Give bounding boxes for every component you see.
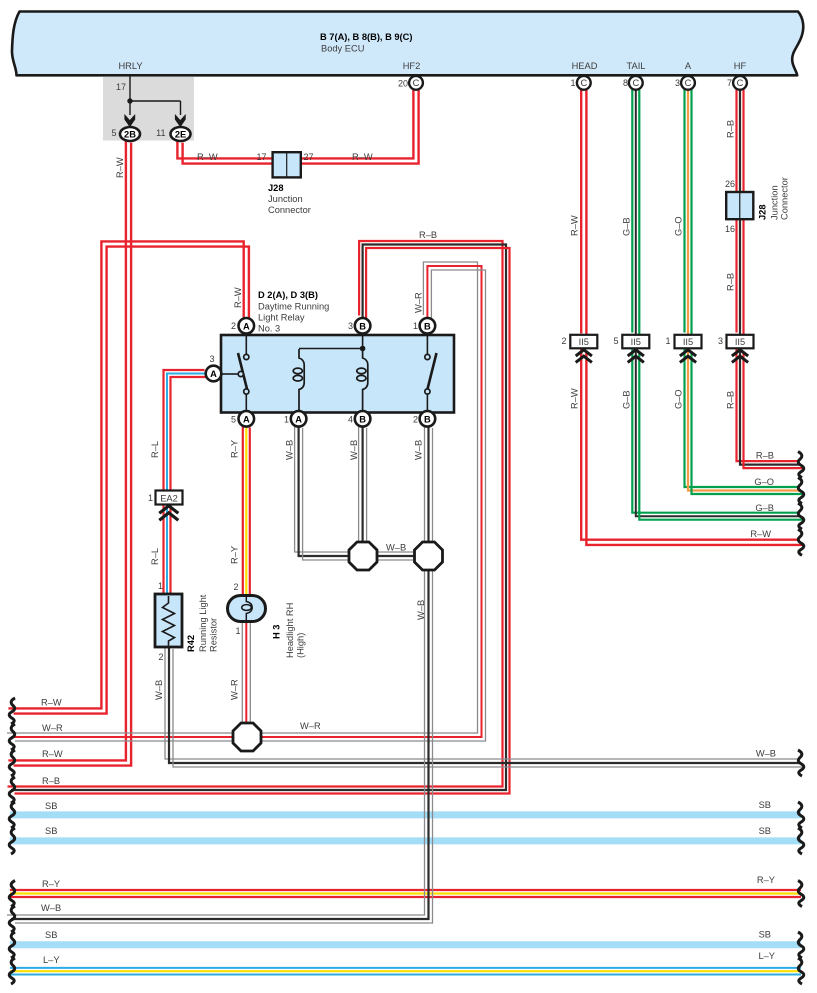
svg-text:3: 3 bbox=[209, 354, 214, 364]
svg-text:3: 3 bbox=[348, 321, 353, 331]
wire W-B R42 down and right to edge bbox=[165, 641, 797, 759]
splice octagon 2 bbox=[415, 542, 443, 570]
wire SB band 3 bbox=[10, 941, 801, 948]
svg-text:W–B: W–B bbox=[41, 903, 61, 913]
svg-text:R–B: R–B bbox=[726, 273, 736, 291]
Body ECU band B7(A) B8(B) B9(C) bbox=[12, 12, 803, 76]
svg-text:7: 7 bbox=[727, 78, 732, 88]
wire R-Y bottom full width bbox=[10, 889, 801, 891]
junction dot HRLY bbox=[127, 98, 132, 103]
svg-text:R–Y: R–Y bbox=[757, 875, 775, 885]
wire SB band 2 bbox=[10, 837, 801, 844]
svg-text:G–O: G–O bbox=[754, 477, 774, 487]
svg-text:B: B bbox=[359, 322, 366, 332]
svg-text:R–Y: R–Y bbox=[42, 879, 60, 889]
svg-text:R–B: R–B bbox=[726, 391, 736, 409]
svg-text:R–W: R–W bbox=[41, 698, 62, 708]
svg-text:8: 8 bbox=[623, 78, 628, 88]
connector oval 2E bbox=[171, 127, 191, 141]
svg-text:20: 20 bbox=[398, 79, 408, 89]
svg-text:SB: SB bbox=[759, 826, 771, 836]
chevron under II5 A bbox=[680, 350, 696, 363]
svg-text:Resistor: Resistor bbox=[209, 618, 219, 652]
svg-text:D 2(A), D 3(B): D 2(A), D 3(B) bbox=[258, 290, 318, 300]
svg-text:C: C bbox=[685, 78, 692, 88]
svg-text:4: 4 bbox=[348, 415, 353, 425]
svg-text:2: 2 bbox=[233, 582, 238, 592]
connector EA2 bbox=[156, 491, 183, 505]
wire R-W from connector 2B down to left edge bbox=[8, 137, 126, 760]
svg-text:R–W: R–W bbox=[570, 388, 580, 409]
connector II5 box (HEAD) bbox=[570, 335, 597, 349]
svg-text:Junction: Junction bbox=[268, 194, 303, 204]
svg-text:W–R: W–R bbox=[230, 679, 240, 700]
svg-text:Junction: Junction bbox=[770, 185, 780, 220]
svg-text:L–Y: L–Y bbox=[43, 955, 60, 965]
svg-text:TAIL: TAIL bbox=[627, 61, 646, 71]
svg-text:SB: SB bbox=[45, 930, 57, 940]
svg-text:R–B: R–B bbox=[419, 230, 437, 240]
svg-text:G–B: G–B bbox=[622, 217, 632, 236]
wire R-B HF column lower to right edge bbox=[737, 347, 798, 462]
wire R-Y relay pin 5A to H3 bbox=[242, 421, 244, 595]
relay left switch bbox=[222, 335, 249, 412]
svg-text:5: 5 bbox=[231, 415, 236, 425]
svg-text:SB: SB bbox=[759, 930, 771, 940]
ECU connector circle C (HEAD) bbox=[577, 76, 591, 90]
svg-text:J28: J28 bbox=[758, 204, 768, 220]
svg-text:1: 1 bbox=[235, 626, 240, 636]
svg-text:G–B: G–B bbox=[755, 503, 774, 513]
chevron under II5 HEAD bbox=[576, 350, 592, 363]
headlight H3 bulb bbox=[228, 596, 266, 622]
svg-text:R–L: R–L bbox=[150, 441, 160, 458]
svg-text:G–B: G–B bbox=[622, 390, 632, 409]
svg-text:R–B: R–B bbox=[42, 776, 60, 786]
wire R-W from connector 2E through J28 to HF2 bbox=[177, 83, 413, 158]
connector II5 box (HF) bbox=[727, 335, 754, 349]
svg-text:II5: II5 bbox=[683, 337, 693, 347]
resistor R42 box bbox=[155, 594, 182, 647]
wire R-B HF column upper through J28 bbox=[735, 83, 737, 333]
svg-text:R–W: R–W bbox=[570, 215, 580, 236]
wire W-B splice 1 to splice 2 bbox=[369, 551, 415, 553]
svg-text:11: 11 bbox=[156, 128, 165, 138]
wire R-L relay pin 3A to EA2 bbox=[164, 370, 205, 492]
svg-text:EA2: EA2 bbox=[160, 494, 178, 504]
chevron under EA2 bbox=[159, 506, 178, 521]
relay pin 5A circle bbox=[239, 411, 255, 427]
svg-text:R–B: R–B bbox=[726, 120, 736, 138]
svg-text:HF: HF bbox=[734, 61, 747, 71]
ECU connector circle C (TAIL) bbox=[629, 76, 643, 90]
wire SB band 1 bbox=[10, 811, 801, 818]
svg-text:W–R: W–R bbox=[42, 723, 63, 733]
wire R-W left loop to relay pin 2A bbox=[8, 241, 243, 708]
svg-text:R–W: R–W bbox=[750, 529, 771, 539]
svg-text:R–W: R–W bbox=[352, 152, 373, 162]
svg-text:17: 17 bbox=[116, 82, 126, 92]
relay pin 3A circle (left) bbox=[206, 366, 222, 382]
svg-text:5: 5 bbox=[613, 336, 618, 346]
relay pin 2B circle bbox=[420, 411, 436, 427]
ECU connector circle C (HF) bbox=[733, 76, 747, 90]
svg-text:II5: II5 bbox=[631, 337, 641, 347]
svg-text:Running Light: Running Light bbox=[198, 594, 208, 652]
svg-text:W–B: W–B bbox=[386, 543, 406, 553]
resistor zigzag bbox=[163, 596, 175, 646]
wire R-B relay pin 3B loop to left edge bbox=[8, 241, 503, 787]
svg-text:3: 3 bbox=[675, 78, 680, 88]
svg-text:3: 3 bbox=[718, 336, 723, 346]
svg-text:2B: 2B bbox=[124, 129, 136, 139]
svg-text:HF2: HF2 bbox=[403, 61, 421, 71]
svg-text:27: 27 bbox=[304, 152, 314, 162]
svg-text:A: A bbox=[243, 322, 250, 332]
svg-text:W–R: W–R bbox=[414, 292, 424, 313]
wire R-L EA2 to resistor R42 bbox=[162, 499, 164, 595]
junction connector J28 (right) bbox=[726, 192, 753, 219]
svg-text:C: C bbox=[737, 78, 744, 88]
svg-text:R–W: R–W bbox=[233, 287, 243, 308]
arrowhead into 2E bbox=[175, 114, 186, 127]
relay pin 1B circle bbox=[420, 318, 436, 334]
svg-text:1: 1 bbox=[665, 336, 670, 346]
svg-text:Connector: Connector bbox=[780, 177, 790, 220]
wire R-W HEAD column lower to right edge bbox=[581, 347, 798, 539]
svg-text:C: C bbox=[580, 78, 587, 88]
wire W-R relay pin 1B loop to left edge bbox=[7, 262, 478, 733]
svg-text:HRLY: HRLY bbox=[118, 61, 142, 71]
relay pin 3B circle bbox=[355, 318, 371, 334]
svg-text:Connector: Connector bbox=[268, 205, 311, 215]
wire L-Y bottom full width bbox=[10, 967, 801, 969]
splice octagon 3 bbox=[233, 723, 261, 751]
splice octagon 1 bbox=[349, 542, 377, 570]
svg-text:1: 1 bbox=[158, 581, 163, 591]
svg-text:SB: SB bbox=[45, 826, 57, 836]
svg-text:W–B: W–B bbox=[285, 440, 295, 460]
svg-text:1: 1 bbox=[570, 78, 575, 88]
chevron under II5 TAIL bbox=[628, 350, 644, 363]
svg-text:2: 2 bbox=[158, 652, 163, 662]
gray shade box under HRLY bbox=[103, 77, 194, 141]
svg-text:26: 26 bbox=[725, 179, 735, 189]
connector oval 2B bbox=[120, 127, 140, 141]
svg-text:2: 2 bbox=[231, 321, 236, 331]
svg-text:W–R: W–R bbox=[300, 721, 321, 731]
wire W-R headlight H3 to splice bbox=[241, 615, 243, 722]
relay coil 2 bbox=[357, 349, 368, 413]
svg-text:II5: II5 bbox=[579, 337, 589, 347]
connector II5 box (A) bbox=[675, 335, 702, 349]
svg-text:2: 2 bbox=[413, 415, 418, 425]
svg-text:R–W: R–W bbox=[115, 157, 125, 178]
svg-text:16: 16 bbox=[725, 224, 735, 234]
wire G-O A column upper bbox=[683, 83, 685, 333]
junction connector J28 (top middle) bbox=[273, 152, 301, 177]
svg-text:W–B: W–B bbox=[414, 440, 424, 460]
wire G-B TAIL column upper bbox=[631, 83, 633, 333]
svg-text:C: C bbox=[632, 78, 639, 88]
svg-text:C: C bbox=[413, 78, 420, 88]
relay coil 1 bbox=[293, 349, 304, 412]
svg-text:B: B bbox=[424, 322, 431, 332]
svg-text:W–B: W–B bbox=[416, 600, 426, 620]
svg-text:R–L: R–L bbox=[150, 548, 160, 565]
relay pin 1A circle bbox=[291, 411, 307, 427]
svg-text:A: A bbox=[685, 61, 692, 71]
svg-text:L–Y: L–Y bbox=[758, 951, 775, 961]
svg-text:Body ECU: Body ECU bbox=[321, 44, 364, 54]
svg-text:W–B: W–B bbox=[349, 440, 359, 460]
svg-text:Headlight RH: Headlight RH bbox=[285, 603, 295, 658]
connector II5 box (TAIL) bbox=[622, 335, 649, 349]
svg-text:II5: II5 bbox=[735, 337, 745, 347]
arrowhead into 2B bbox=[124, 114, 135, 127]
svg-text:A: A bbox=[243, 415, 250, 425]
wire W-B relay pin 4B to splice 1 bbox=[358, 420, 360, 544]
svg-text:B 7(A), B 8(B), B 9(C): B 7(A), B 8(B), B 9(C) bbox=[320, 32, 412, 42]
svg-text:W–B: W–B bbox=[756, 749, 776, 759]
svg-text:SB: SB bbox=[45, 801, 57, 811]
svg-text:Daytime Running: Daytime Running bbox=[258, 302, 329, 312]
svg-text:No. 3: No. 3 bbox=[258, 324, 280, 334]
wire G-O A column lower to right edge bbox=[685, 347, 798, 488]
svg-text:2E: 2E bbox=[175, 129, 186, 139]
svg-text:5: 5 bbox=[111, 128, 116, 138]
svg-text:SB: SB bbox=[759, 800, 771, 810]
svg-text:1: 1 bbox=[413, 321, 418, 331]
svg-text:R42: R42 bbox=[186, 635, 196, 652]
relay D2(A) D3(B) box bbox=[221, 335, 454, 413]
relay pin 2A circle bbox=[239, 318, 255, 334]
wire W-B relay pin 1A to splice 1 bbox=[295, 420, 350, 552]
svg-text:R–Y: R–Y bbox=[230, 546, 240, 564]
ECU connector circle C (A) bbox=[681, 76, 695, 90]
svg-text:B: B bbox=[424, 415, 431, 425]
svg-text:A: A bbox=[295, 415, 302, 425]
svg-text:R–W: R–W bbox=[42, 749, 63, 759]
relay coil top link bbox=[299, 335, 363, 349]
svg-text:2: 2 bbox=[561, 336, 566, 346]
svg-text:J28: J28 bbox=[268, 183, 284, 193]
HRLY pin 17 line and junction bbox=[130, 76, 181, 115]
wire R-W HEAD column upper bbox=[580, 83, 582, 333]
svg-text:1: 1 bbox=[148, 493, 153, 503]
svg-text:R–B: R–B bbox=[756, 451, 774, 461]
svg-text:Light Relay: Light Relay bbox=[258, 313, 305, 323]
wire W-B splice 2 down to bottom left edge bbox=[7, 563, 425, 915]
relay pin 4B circle bbox=[355, 411, 371, 427]
wire G-B TAIL column lower to right edge bbox=[632, 347, 797, 513]
torn wire ends right bbox=[798, 452, 804, 984]
svg-text:R–W: R–W bbox=[197, 152, 218, 162]
svg-text:17: 17 bbox=[256, 152, 266, 162]
wire W-B relay pin 2B to splice 2 bbox=[424, 420, 426, 544]
svg-text:(High): (High) bbox=[296, 633, 306, 658]
svg-text:W–B: W–B bbox=[154, 680, 164, 700]
svg-text:R–Y: R–Y bbox=[230, 440, 240, 458]
svg-text:G–O: G–O bbox=[674, 389, 684, 409]
svg-text:A: A bbox=[210, 369, 217, 379]
svg-text:1: 1 bbox=[284, 415, 289, 425]
relay right switch bbox=[425, 335, 437, 412]
ECU connector circle C (HF2) bbox=[409, 76, 423, 90]
svg-text:B: B bbox=[359, 415, 366, 425]
svg-text:H 3: H 3 bbox=[272, 625, 282, 639]
svg-text:G–O: G–O bbox=[674, 216, 684, 236]
chevron under II5 HF bbox=[732, 350, 748, 363]
junction dot relay bbox=[360, 346, 366, 352]
svg-text:HEAD: HEAD bbox=[572, 61, 598, 71]
